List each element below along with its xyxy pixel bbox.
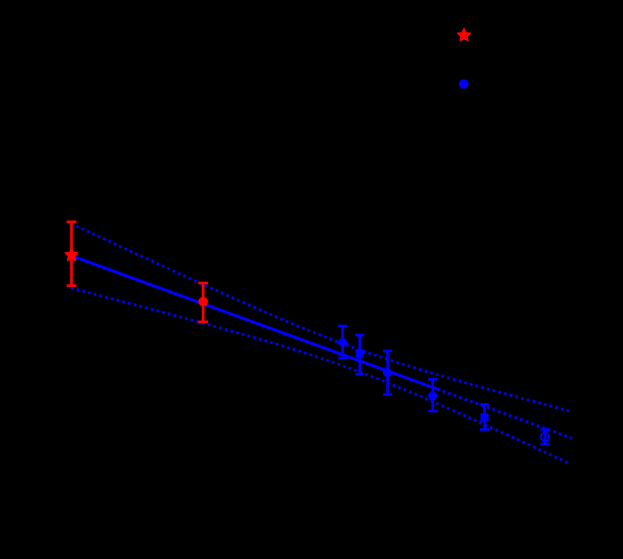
red point R2 error bar	[198, 283, 208, 322]
blue point B4 error bar	[428, 379, 437, 411]
blue point B6 open circle marker	[541, 433, 549, 441]
legend blue circle marker	[459, 79, 469, 89]
upper confidence band (dotted blue curve)	[71, 224, 572, 412]
blue point B2 square marker	[356, 349, 364, 357]
red point R2 circle marker	[198, 297, 208, 307]
red point R1 star marker	[65, 249, 77, 261]
blue point B4 pentagon marker	[428, 391, 438, 400]
best-fit line extrapolation (dotted blue)	[437, 389, 572, 438]
lower confidence band (dotted blue curve)	[71, 288, 568, 463]
blue point B1 error bar	[338, 326, 347, 358]
blue point B3 error bar	[383, 351, 392, 395]
red point R1 error bar	[67, 222, 77, 286]
legend red star marker	[458, 29, 470, 41]
blue point B5 square marker	[480, 413, 488, 421]
blue point B6 error bar	[541, 430, 550, 445]
best-fit line (solid blue)	[71, 256, 437, 389]
blue point B2 error bar	[355, 335, 364, 374]
blue point B5 error bar	[480, 405, 489, 430]
blue point B3 circle marker	[383, 368, 392, 377]
blue point B1 diamond marker	[337, 337, 348, 348]
